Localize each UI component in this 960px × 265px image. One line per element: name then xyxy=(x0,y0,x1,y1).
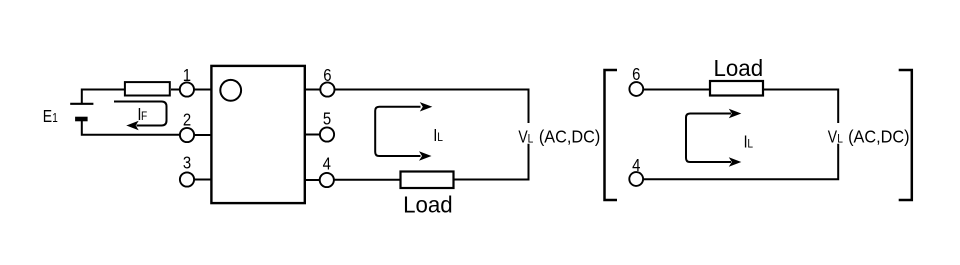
wire battery negative to pin 2 xyxy=(82,119,187,135)
IC body (photocoupler) xyxy=(211,66,304,203)
svg-text:L: L xyxy=(837,133,843,146)
wire battery positive to resistor xyxy=(82,90,124,104)
svg-text:5: 5 xyxy=(323,109,331,128)
svg-text:F: F xyxy=(141,110,147,123)
svg-text:4: 4 xyxy=(632,156,640,175)
svg-text:6: 6 xyxy=(323,66,331,85)
svg-text:L: L xyxy=(437,131,443,144)
svg-text:L: L xyxy=(747,138,753,151)
load resistor (bracket circuit) xyxy=(710,81,763,96)
IF current arrow xyxy=(114,102,167,126)
svg-text:E: E xyxy=(43,108,52,127)
svg-text:6: 6 xyxy=(632,65,640,84)
svg-text:Load: Load xyxy=(403,191,453,217)
left bracket xyxy=(605,70,618,200)
svg-text:1: 1 xyxy=(183,66,191,85)
terminal pin 4 xyxy=(320,173,334,187)
wire pin 2 to IC xyxy=(187,134,211,136)
svg-text:3: 3 xyxy=(183,153,191,172)
IL current arrows xyxy=(375,107,420,156)
svg-text:V: V xyxy=(518,128,528,147)
battery E1 negative plate xyxy=(75,117,88,122)
terminal pin 1 xyxy=(180,82,194,96)
svg-text:(AC,DC): (AC,DC) xyxy=(848,127,909,147)
terminal pin 5 xyxy=(320,127,334,141)
svg-text:4: 4 xyxy=(323,154,331,173)
wire terminal 6 to load xyxy=(636,89,709,91)
svg-text:V: V xyxy=(828,128,838,147)
terminal pin 6 xyxy=(320,82,334,96)
wire IC to pin 5 xyxy=(305,134,328,136)
svg-text:1: 1 xyxy=(52,112,58,125)
wire pin 3 to IC xyxy=(187,179,211,181)
svg-text:(AC,DC): (AC,DC) xyxy=(539,127,600,147)
svg-text:L: L xyxy=(528,133,534,146)
terminal pin 2 xyxy=(180,128,194,142)
terminal 4 xyxy=(629,172,643,186)
wire IC to pin 6 xyxy=(305,89,328,91)
wire pin 4 to load xyxy=(327,179,400,181)
battery E1 positive plate xyxy=(70,103,93,105)
right bracket xyxy=(899,70,912,200)
wire pin 1 to IC xyxy=(187,89,211,91)
svg-text:2: 2 xyxy=(183,110,191,129)
IL current arrows (bracket circuit) xyxy=(686,114,731,163)
load resistor xyxy=(401,172,454,189)
svg-text:Load: Load xyxy=(713,55,763,81)
pin 1 indicator circle xyxy=(220,80,241,101)
resistor (series limiting) xyxy=(125,82,170,95)
wire VL return to load xyxy=(455,144,529,180)
wire IC to pin 4 xyxy=(305,179,328,181)
terminal pin 3 xyxy=(180,172,194,186)
wire pin 6 to VL node xyxy=(327,90,529,124)
wire load to VL node xyxy=(764,90,838,124)
wire VL return to terminal 4 xyxy=(636,144,838,180)
terminal 6 xyxy=(629,82,643,96)
wire resistor to pin 1 xyxy=(171,89,187,91)
